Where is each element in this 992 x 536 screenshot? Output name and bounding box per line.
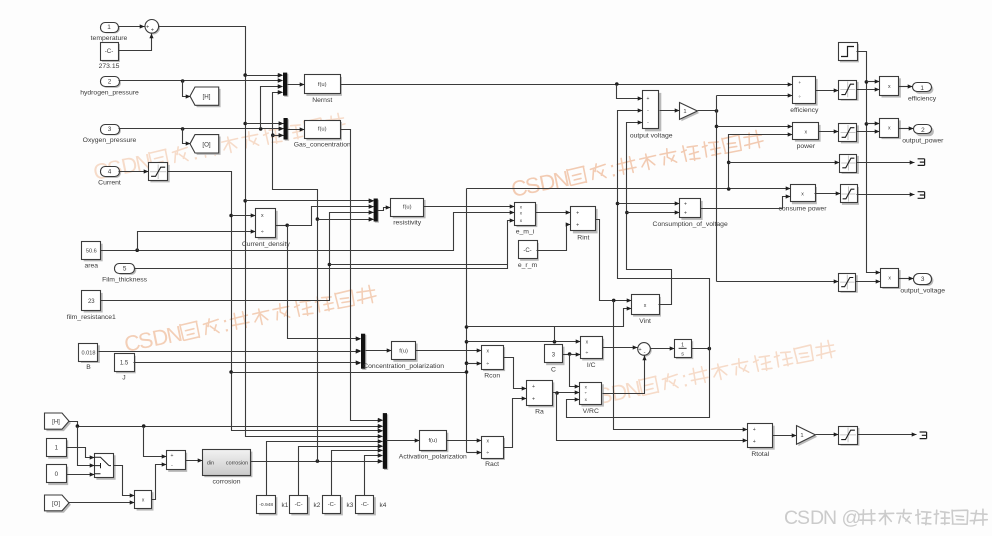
wire film_resistance1 to resistivity mux in3	[101, 210, 374, 300]
svg-text:power: power	[797, 143, 816, 150]
svg-text:+: +	[576, 211, 579, 217]
wire integrator out junction	[692, 347, 712, 351]
watermark 4	[581, 336, 837, 412]
wire corrosion branch to Gas mux in3	[273, 133, 284, 137]
svg-text:+: +	[753, 439, 756, 445]
svg-text:÷: ÷	[585, 351, 588, 357]
saturation block (current row)	[840, 155, 859, 174]
constant J 1.5	[115, 354, 136, 382]
wire C to I/C in2	[570, 352, 581, 356]
svg-text:Ra: Ra	[535, 409, 544, 416]
wire Vint out to output_voltage in3	[625, 120, 671, 304]
svg-text:+: +	[638, 347, 641, 353]
svg-text:2: 2	[921, 127, 925, 134]
wire step branch to product2 in1	[867, 121, 880, 125]
wire Nernst out to efficiency in1	[341, 82, 793, 86]
svg-text:J: J	[122, 375, 125, 382]
product block Vint	[632, 295, 661, 325]
svg-text:x: x	[644, 303, 647, 309]
svg-text:23: 23	[88, 299, 95, 305]
svg-text:+: +	[532, 384, 535, 390]
step block	[839, 43, 859, 63]
divide block efficiency	[790, 77, 819, 114]
wire I branch to Current_density in1	[232, 213, 256, 217]
wire Rcon out to Ra in1	[504, 358, 527, 391]
sum block Rtotal	[748, 424, 775, 459]
svg-text:+: +	[646, 96, 649, 102]
wire I riser to power in2 and sat row3	[727, 132, 793, 188]
wire Gas mux output	[288, 127, 305, 131]
mux for Concentration_polarization	[356, 334, 366, 370]
wire I/C out to sum circle	[603, 345, 638, 349]
svg-text:area: area	[84, 263, 98, 270]
wire Concentration mux output	[366, 348, 392, 352]
wire k2 to Activation mux in6	[299, 444, 383, 495]
divide block I/C	[581, 337, 605, 369]
wire V branch to Consumption_of_voltage in1	[618, 201, 680, 205]
svg-text:k2: k2	[314, 502, 321, 509]
constant e_r_m	[518, 241, 539, 270]
goto block [O]	[190, 135, 221, 155]
svg-text:÷: ÷	[486, 361, 489, 367]
wire I branch to Ract in2	[467, 450, 482, 454]
sum block Add (T+273.15)	[145, 20, 160, 35]
wire Current_density output	[276, 224, 290, 228]
wire Gas_concentration out to Activation mux in1	[341, 130, 383, 423]
svg-text:x: x	[888, 126, 891, 132]
wire Activation mux output	[387, 438, 420, 442]
wire I branch to I/C in1	[467, 339, 581, 343]
constant 1	[47, 439, 69, 459]
wire switch out to product in1	[114, 466, 135, 498]
wire Current port to saturation	[119, 169, 149, 173]
svg-text:k1: k1	[282, 502, 289, 509]
input port 5 Film_thickness	[102, 264, 148, 284]
wire corrosion riser north	[271, 90, 319, 461]
svg-text:-C-: -C-	[361, 502, 369, 508]
wire saturation to terminator 2	[857, 192, 915, 196]
svg-text:-C-: -C-	[295, 502, 303, 508]
wire I/C in1 riser stub	[554, 327, 556, 342]
svg-text:x: x	[888, 84, 891, 90]
svg-text:x: x	[888, 276, 891, 282]
svg-text:f(u): f(u)	[428, 438, 437, 444]
svg-text:D: D	[810, 507, 824, 529]
svg-text:5: 5	[123, 266, 127, 273]
svg-text:1: 1	[800, 433, 803, 439]
Fcn block Activation_polarization	[399, 431, 467, 461]
wire constant 273.15 to sum bottom	[119, 34, 154, 51]
wire T net: sum output down left bus to Activation mux	[159, 27, 383, 439]
svg-text:+: +	[532, 397, 535, 403]
svg-text:C: C	[784, 507, 798, 529]
wire Rint out to Vint in1	[596, 220, 632, 303]
output port 2 output_power	[902, 125, 944, 145]
constant 273.15	[99, 43, 120, 71]
wire J down to Concentration mux in1	[288, 226, 361, 341]
svg-text:÷: ÷	[798, 95, 801, 100]
svg-text:-0.948: -0.948	[259, 502, 273, 508]
wire T branch to Gas mux in1	[246, 121, 284, 125]
svg-text:k3: k3	[347, 502, 354, 509]
constant k3	[323, 496, 343, 516]
Fcn block Nernst	[305, 75, 342, 105]
Fcn block resistivity	[391, 199, 426, 227]
svg-text:I/C: I/C	[587, 362, 596, 369]
svg-text:Rcon: Rcon	[484, 372, 500, 379]
svg-text:[O]: [O]	[202, 141, 211, 148]
wire I branch to Vint in2	[467, 306, 632, 326]
constant k2	[290, 496, 310, 516]
divide block V/RC	[580, 383, 604, 415]
wire I vertical trunk x466.5	[465, 189, 469, 453]
wire C down to V/RC in1	[570, 355, 580, 389]
Fcn block Gas_concentration	[294, 121, 351, 149]
svg-text:Rint: Rint	[577, 235, 589, 242]
gain block 1 (Rtotal)	[797, 426, 818, 447]
svg-text:+: +	[151, 27, 154, 33]
wire efficiency out to saturation	[816, 88, 839, 92]
mux for Activation_polarization	[378, 413, 388, 470]
svg-text:s: s	[681, 351, 684, 357]
svg-text:50.6: 50.6	[86, 249, 97, 255]
sum block Ra	[527, 381, 555, 416]
wire output_voltage sum to gain	[660, 108, 680, 112]
svg-text:+: +	[146, 24, 149, 30]
svg-text:x: x	[801, 192, 804, 198]
svg-text:[H]: [H]	[203, 94, 211, 101]
saturation block Rtotal	[839, 427, 860, 446]
svg-text:4: 4	[108, 169, 112, 176]
svg-text:e_m_i: e_m_i	[516, 228, 535, 235]
svg-text:3: 3	[108, 126, 112, 133]
wire temperature port to sum	[119, 24, 145, 28]
svg-text:din: din	[207, 461, 214, 467]
wire constant 0 to switch in3	[67, 472, 95, 476]
wire k3 to Activation mux in7	[332, 448, 383, 495]
product block (efficiency out)	[880, 77, 901, 98]
svg-text:1.5: 1.5	[120, 361, 129, 367]
svg-text:x: x	[805, 129, 808, 135]
svg-text:-: -	[644, 350, 646, 356]
svg-text:efficiency: efficiency	[790, 107, 819, 114]
svg-text:+: +	[171, 453, 174, 459]
svg-text:+: +	[684, 211, 687, 217]
mux for Nernst	[278, 73, 288, 97]
mux for resistivity	[369, 199, 379, 223]
wire product to output port 2	[899, 126, 914, 130]
wire Rint branch down to Rtotal in1	[614, 301, 748, 432]
switch block	[95, 454, 116, 480]
svg-text:-C-: -C-	[105, 48, 114, 55]
gain block 1 (cell count)	[680, 103, 700, 122]
svg-text:1: 1	[55, 444, 59, 451]
wire e_m_i out to Rint in1	[536, 210, 571, 214]
wire area 50.6 east line to e_m_i in2	[101, 210, 515, 252]
wire product to output port 1	[899, 84, 913, 88]
svg-text:2: 2	[108, 79, 112, 86]
terminator 1	[918, 159, 925, 166]
wire [H] branch down to switch in2	[78, 427, 95, 468]
wire gain out to Vcell trunk	[698, 109, 719, 113]
svg-text:corrosion: corrosion	[226, 461, 248, 467]
wire step branch to product1 in1	[867, 79, 880, 83]
svg-text:1: 1	[107, 24, 111, 31]
svg-text:Rtotal: Rtotal	[751, 451, 769, 458]
wire Oxygen_pressure to Gas mux in2	[119, 126, 284, 130]
divide block Rcon	[482, 346, 506, 380]
svg-text:resistivity: resistivity	[393, 220, 422, 227]
svg-text:@: @	[842, 507, 862, 529]
wire k1 to Activation mux in5	[267, 439, 383, 495]
wire saturation to product (power)	[857, 129, 880, 133]
wire I to consume power in1	[467, 186, 791, 190]
svg-text:+: +	[576, 222, 579, 228]
svg-text:film_resistance1: film_resistance1	[67, 314, 116, 321]
terminator 3	[920, 432, 927, 439]
svg-text:[O]: [O]	[52, 502, 60, 508]
wire [H] branch down to sum in1	[144, 427, 167, 459]
svg-text:+: +	[753, 427, 756, 433]
output port 1 efficiency	[908, 83, 937, 103]
svg-text:e_r_m: e_r_m	[518, 262, 538, 269]
svg-text:Oxygen_pressure: Oxygen_pressure	[83, 137, 137, 144]
svg-text:Current_density: Current_density	[242, 241, 291, 248]
svg-text:f(u): f(u)	[399, 348, 408, 354]
from block [H]	[45, 413, 71, 431]
svg-text:1: 1	[681, 343, 684, 349]
wire oxygen branch up to Nernst mux in3	[261, 84, 283, 128]
svg-text:÷: ÷	[486, 450, 489, 456]
sum circle (I/C - V/RC)	[638, 343, 652, 357]
wire step out down trunk x866	[857, 52, 881, 275]
svg-text:k4: k4	[380, 502, 387, 509]
svg-text:1: 1	[683, 109, 686, 115]
wire corrosion branch to resistivity mux in4	[318, 217, 374, 221]
watermark credit bottom-right	[784, 507, 987, 529]
wire V/RC out up to sum circle bottom	[603, 356, 647, 394]
product block e_m_i	[515, 203, 538, 236]
wire from [H] out east	[69, 422, 383, 429]
wire consume power to saturation	[815, 191, 841, 195]
svg-text:output_voltage: output_voltage	[900, 287, 945, 294]
svg-text:0.018: 0.018	[82, 350, 96, 356]
from block [O]	[45, 495, 71, 513]
svg-text:-C-: -C-	[328, 502, 336, 508]
wire V (integ) north to output_voltage in2	[616, 108, 710, 348]
wire Activation_polarization out to Ract in1	[447, 438, 482, 442]
constant film_resistance1 23	[67, 291, 116, 321]
svg-text:output voltage: output voltage	[630, 133, 673, 140]
wire saturation row3 to terminator 1	[857, 160, 915, 164]
wire sum circle to integrator	[651, 346, 675, 350]
constant area 50.6	[82, 242, 103, 270]
watermark 1	[91, 109, 347, 185]
wire saturation to terminator 3	[858, 432, 917, 436]
saturation block power	[839, 124, 859, 144]
wire saturation row5 to product3 in2	[856, 279, 881, 283]
svg-text:Nernst: Nernst	[312, 97, 332, 104]
mux for Gas_concentration	[279, 118, 289, 141]
wire Vcell to power in1	[717, 124, 793, 128]
svg-text:-C-: -C-	[523, 248, 531, 254]
goto block [H]	[190, 87, 221, 107]
divide block Ract	[482, 437, 506, 469]
wire film_resistance branch to e_m_i in3 riser	[330, 264, 508, 266]
saturation block output_voltage	[839, 274, 858, 293]
constant k1 -0.948	[257, 496, 278, 516]
svg-text:0: 0	[55, 471, 59, 478]
svg-text:273.15: 273.15	[99, 63, 120, 70]
wire Vint branch to Consumption_of_voltage in2	[627, 210, 680, 214]
wire Vcell to efficiency in2	[717, 93, 793, 97]
constant B 0.018	[79, 344, 100, 372]
divide block Current_density	[242, 209, 291, 248]
constant k4	[356, 496, 376, 516]
saturation block efficiency	[839, 81, 859, 101]
wire I branch to Rcon in2	[467, 361, 482, 365]
product block power	[793, 123, 821, 151]
svg-text:temperature: temperature	[91, 35, 128, 42]
wire I branch to saturation row3	[729, 160, 840, 164]
subsystem corrosion	[203, 450, 253, 486]
saturation block consume power	[841, 185, 859, 205]
watermark 2	[509, 126, 765, 202]
wire Concentration_polarization out to Rcon in1	[416, 348, 482, 352]
product block (output_voltage out)	[881, 269, 901, 290]
wire resistivity mux output	[378, 205, 391, 210]
wire T branch to Nernst mux in1	[246, 73, 283, 77]
svg-text:[H]: [H]	[52, 420, 60, 426]
wire Ra out junction to V/RC in2	[553, 390, 580, 394]
wire Vcell to saturation row5	[717, 279, 839, 283]
svg-text:efficiency: efficiency	[908, 95, 937, 102]
saturation block (current limit)	[149, 163, 170, 183]
input port 1 temperature	[91, 23, 128, 42]
watermark 3	[122, 281, 378, 357]
wire C out junction	[563, 352, 572, 356]
sum block (corrosion sub)	[167, 451, 188, 472]
svg-text:hydrogen_pressure: hydrogen_pressure	[80, 89, 139, 96]
product block (corrosion mult)	[135, 491, 154, 511]
wire gain to saturation (Rtotal)	[816, 432, 839, 436]
wire oxygen branch to goto [O]	[183, 129, 191, 146]
constant 0	[47, 465, 69, 486]
product block consume power	[779, 185, 828, 213]
svg-text:1: 1	[920, 85, 924, 92]
output port 3 output_voltage	[900, 274, 945, 295]
wire Rtotal out to gain	[773, 433, 797, 437]
input port 3 Oxygen_pressure	[83, 125, 137, 144]
wire product out to sum in2	[152, 462, 167, 499]
svg-text:Activation_polarization: Activation_polarization	[399, 454, 467, 461]
svg-text:+: +	[798, 81, 801, 86]
svg-text:Concentration_polarization: Concentration_polarization	[363, 363, 444, 370]
wire area riser to Current_density in2	[138, 229, 256, 250]
svg-text:Film_thickness: Film_thickness	[102, 276, 148, 283]
svg-text:Gas_concentration: Gas_concentration	[294, 142, 351, 149]
input port 2 hydrogen_pressure	[80, 77, 139, 97]
wire resistivity out to e_m_i in1	[424, 204, 515, 208]
wire constant 1 to switch in1	[67, 448, 95, 460]
svg-text:Vint: Vint	[639, 318, 651, 325]
svg-text:V/RC: V/RC	[583, 408, 599, 415]
svg-text:C: C	[551, 367, 556, 374]
wire Ract out up to Ra in2	[504, 396, 527, 447]
svg-text:+: +	[684, 201, 687, 207]
terminator 2	[918, 192, 925, 199]
product block (power out)	[880, 119, 901, 140]
svg-text:output_power: output_power	[902, 138, 944, 145]
svg-text:Current: Current	[98, 179, 121, 186]
svg-text:3: 3	[921, 276, 925, 283]
wire e_r_m out to Rint in2	[537, 222, 571, 250]
svg-text:corrosion: corrosion	[213, 479, 241, 486]
integrator block 1/s	[675, 340, 694, 360]
wire Nernst branch to output_voltage in1	[617, 85, 643, 101]
wire from [O] to product in2	[69, 500, 135, 504]
svg-text:S: S	[797, 507, 810, 529]
wire Film_thickness to e_m_i in3	[135, 218, 515, 268]
svg-text:f(u): f(u)	[403, 205, 412, 211]
wire Ra branch down to Rtotal in2	[557, 393, 748, 443]
wire T branch to resistivity mux in1	[246, 198, 374, 202]
svg-text:f(u): f(u)	[318, 127, 327, 133]
wire I net: saturation out down bus to Activation mux in3	[168, 172, 383, 433]
wire saturation to product (efficiency)	[857, 87, 880, 91]
svg-text:consume power: consume power	[779, 206, 828, 213]
svg-text:Ract: Ract	[485, 461, 499, 468]
wire constant B to Concentration mux in2	[99, 349, 361, 353]
wire power out to saturation	[819, 129, 839, 133]
wire V south to V/RC in3	[567, 349, 710, 418]
wire hydrogen branch to goto [H]	[183, 81, 191, 99]
wire sum out to corrosion din	[186, 458, 203, 462]
wire hydrogen_pressure to Nernst mux in2	[119, 78, 283, 82]
wire I branch east (y372)	[232, 372, 467, 374]
constant C 3	[545, 345, 565, 374]
svg-text:N: N	[823, 507, 837, 529]
svg-text:B: B	[86, 364, 91, 371]
sum block Rint	[571, 207, 598, 242]
wire Nernst mux output	[288, 82, 305, 86]
Fcn block Concentration_polarization	[363, 342, 444, 371]
wire constant J to Concentration mux in3	[134, 360, 361, 364]
wire J riser to resistivity mux in2	[288, 204, 374, 225]
sum block Consumption_of_voltage	[653, 199, 728, 229]
wire product3 to output port 3	[899, 276, 914, 280]
wire Consumption_of_voltage out to consume power in2	[701, 194, 791, 208]
svg-text:f(u): f(u)	[318, 82, 327, 88]
svg-text:x: x	[261, 213, 264, 219]
wire Vcell trunk x716.5	[715, 96, 719, 282]
sum block output_voltage	[630, 91, 673, 140]
svg-text:÷: ÷	[261, 229, 264, 235]
wire k4 to Activation mux in8	[365, 453, 383, 495]
input port 4 Current	[98, 167, 121, 187]
wire corrosion out to Activation mux in9	[251, 459, 383, 463]
